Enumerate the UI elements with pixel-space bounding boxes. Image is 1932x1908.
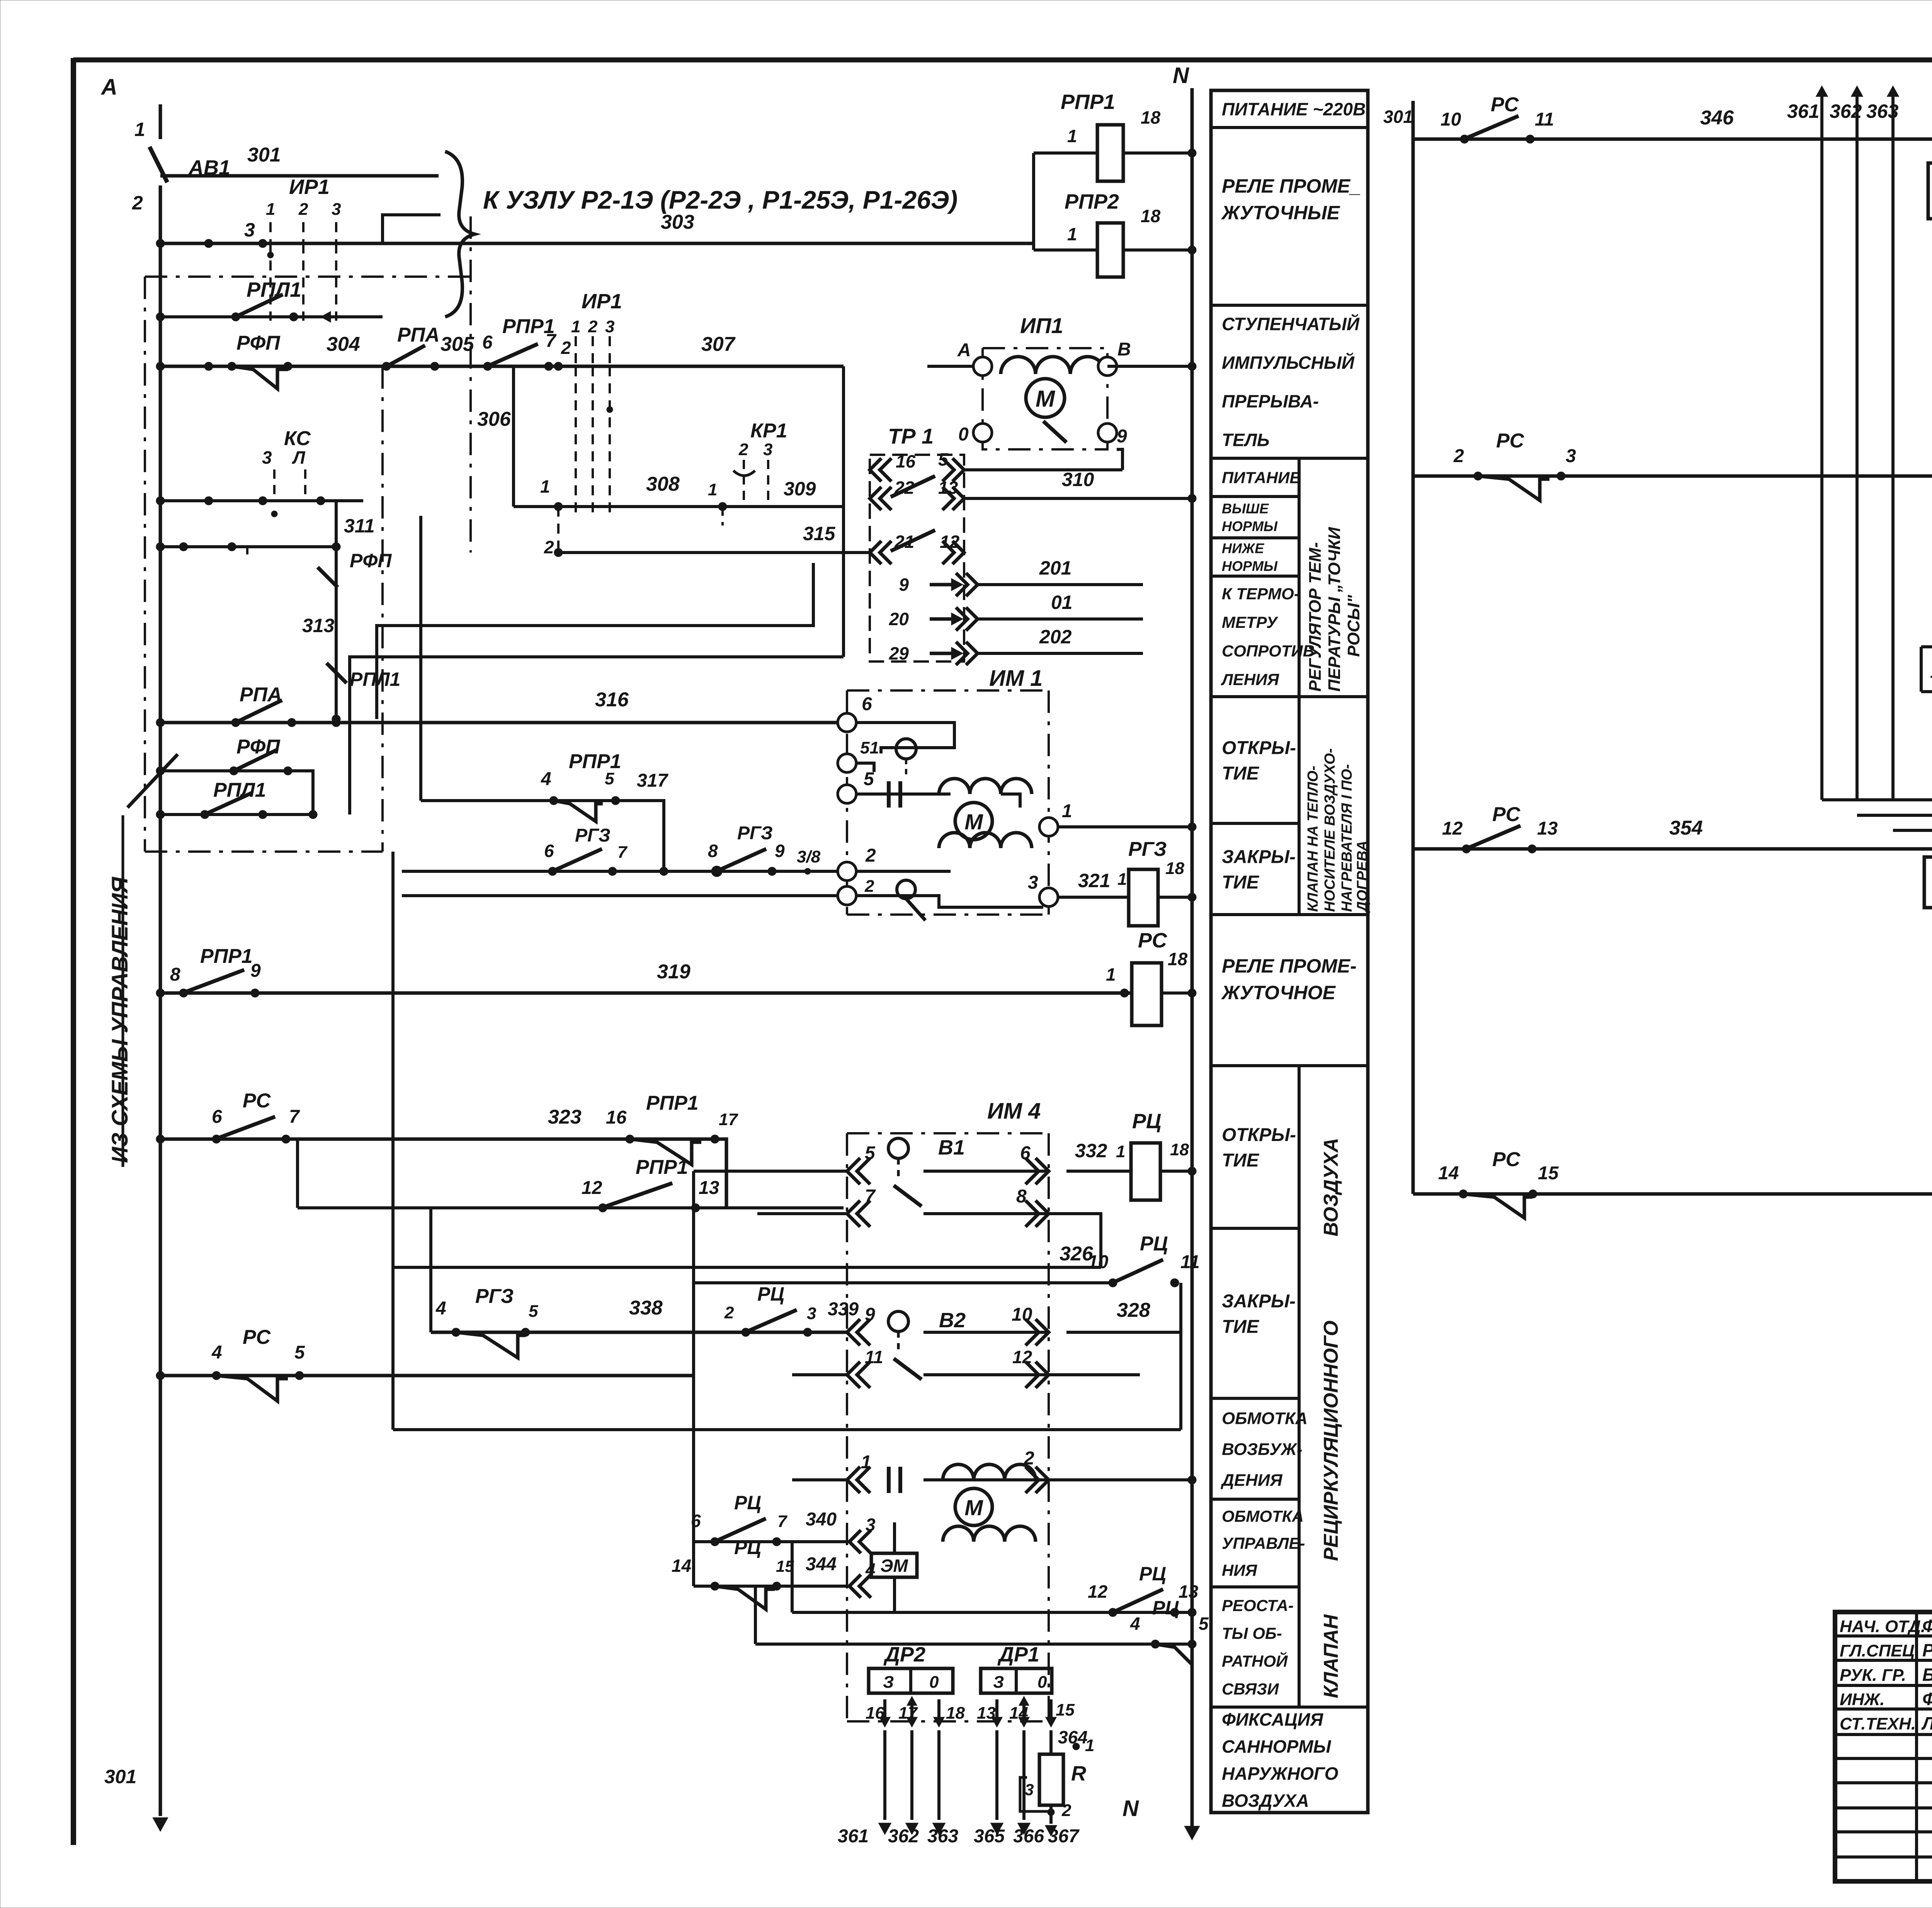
svg-text:7: 7 (289, 1107, 300, 1127)
svg-text:2: 2 (588, 317, 598, 336)
svg-text:Л: Л (292, 447, 306, 468)
svg-text:9: 9 (899, 575, 909, 595)
svg-text:6: 6 (862, 694, 872, 714)
svg-text:13: 13 (699, 1178, 719, 1198)
svg-text:10: 10 (1012, 1304, 1032, 1325)
svg-text:14: 14 (1930, 663, 1932, 682)
svg-text:2: 2 (544, 537, 554, 557)
svg-text:3: 3 (807, 1304, 816, 1323)
svg-text:315: 315 (803, 523, 836, 544)
svg-text:2: 2 (865, 845, 876, 866)
svg-text:2: 2 (298, 200, 308, 219)
svg-text:ДР2: ДР2 (883, 1643, 925, 1666)
svg-text:КС: КС (284, 427, 311, 450)
svg-text:3: 3 (244, 219, 255, 241)
svg-text:ОБМОТКА: ОБМОТКА (1222, 1507, 1304, 1525)
svg-text:4: 4 (1130, 1614, 1140, 1634)
svg-text:ТЕЛЬ: ТЕЛЬ (1222, 430, 1270, 450)
svg-text:2: 2 (1061, 1801, 1071, 1820)
svg-text:15: 15 (1538, 1163, 1559, 1184)
svg-text:ЛЕНИЯ: ЛЕНИЯ (1221, 670, 1279, 689)
svg-text:ДОГРЕВА: ДОГРЕВА (1354, 841, 1371, 913)
svg-text:ТР 1: ТР 1 (888, 424, 934, 448)
svg-text:12: 12 (1088, 1581, 1108, 1602)
svg-text:РПР1: РПР1 (1061, 90, 1115, 114)
svg-text:1: 1 (571, 317, 580, 336)
svg-text:ОТКРЫ-: ОТКРЫ- (1222, 1125, 1296, 1145)
svg-text:16: 16 (606, 1107, 627, 1128)
svg-text:БРОНШТЕЙН: БРОНШТЕЙН (1922, 1665, 1932, 1685)
svg-text:РЕГУЛЯТОР ТЕМ-: РЕГУЛЯТОР ТЕМ- (1306, 542, 1325, 692)
svg-text:22: 22 (894, 478, 915, 498)
svg-text:17: 17 (719, 1110, 738, 1129)
svg-text:13: 13 (938, 478, 958, 498)
svg-text:РПР1: РПР1 (200, 945, 253, 968)
svg-text:6: 6 (1020, 1143, 1031, 1163)
svg-text:5: 5 (529, 1302, 538, 1321)
svg-text:16: 16 (866, 1704, 884, 1723)
svg-text:340: 340 (806, 1509, 837, 1530)
svg-text:304: 304 (327, 333, 360, 355)
svg-text:361: 361 (1787, 100, 1819, 122)
svg-text:362: 362 (1830, 100, 1862, 122)
svg-text:РПР1: РПР1 (636, 1156, 688, 1178)
svg-text:ИМ 4: ИМ 4 (987, 1099, 1041, 1124)
svg-text:18: 18 (946, 1704, 965, 1723)
svg-text:РПА: РПА (240, 684, 282, 706)
svg-text:11: 11 (1535, 109, 1554, 130)
svg-text:НАЧ. ОТД.: НАЧ. ОТД. (1840, 1617, 1925, 1636)
svg-text:РПА: РПА (397, 324, 440, 346)
svg-text:РАТНОЙ: РАТНОЙ (1222, 1651, 1288, 1670)
svg-text:12: 12 (1012, 1347, 1032, 1367)
svg-text:ЛИСИКИНА: ЛИСИКИНА (1921, 1713, 1932, 1733)
svg-text:РС: РС (1138, 929, 1167, 952)
svg-text:311: 311 (344, 515, 375, 537)
svg-text:А: А (100, 75, 117, 100)
svg-text:17: 17 (898, 1704, 918, 1723)
svg-text:2: 2 (1453, 446, 1464, 466)
svg-text:НАРУЖНОГО: НАРУЖНОГО (1222, 1763, 1338, 1784)
svg-text:РЦ: РЦ (734, 1537, 761, 1558)
svg-text:7: 7 (777, 1512, 788, 1531)
svg-text:1: 1 (1117, 870, 1127, 889)
svg-text:РС: РС (243, 1090, 271, 1112)
svg-text:РПР1: РПР1 (646, 1092, 699, 1114)
svg-text:НОСИТЕЛЕ ВОЗДУХО-: НОСИТЕЛЕ ВОЗДУХО- (1322, 748, 1338, 912)
svg-text:12: 12 (1442, 818, 1463, 839)
svg-text:3/8: 3/8 (797, 847, 821, 866)
svg-text:308: 308 (646, 473, 680, 495)
svg-text:362: 362 (888, 1826, 919, 1847)
svg-text:18: 18 (1168, 949, 1188, 969)
svg-text:РС: РС (1496, 430, 1525, 452)
svg-text:3: 3 (332, 200, 341, 219)
svg-text:2: 2 (738, 440, 748, 459)
svg-text:РС: РС (243, 1326, 271, 1349)
svg-text:12: 12 (582, 1178, 602, 1198)
svg-text:1: 1 (1062, 801, 1072, 821)
svg-text:4: 4 (541, 769, 551, 789)
svg-text:РУБЧИНСКИЙ: РУБЧИНСКИЙ (1922, 1640, 1932, 1660)
svg-text:ЭМ: ЭМ (880, 1556, 908, 1576)
svg-text:2: 2 (724, 1303, 734, 1322)
svg-text:ЖУТОЧНОЕ: ЖУТОЧНОЕ (1221, 982, 1336, 1003)
svg-text:365: 365 (974, 1826, 1005, 1847)
svg-text:4: 4 (435, 1298, 446, 1319)
svg-text:305: 305 (440, 333, 474, 355)
svg-text:7: 7 (865, 1186, 876, 1207)
svg-text:306: 306 (477, 408, 511, 430)
svg-text:364: 364 (1058, 1727, 1088, 1747)
svg-text:М: М (964, 1496, 983, 1520)
svg-text:ИМ 1: ИМ 1 (989, 666, 1043, 691)
svg-text:7: 7 (546, 331, 557, 351)
svg-text:ОТКРЫ-: ОТКРЫ- (1222, 738, 1296, 758)
svg-text:5: 5 (1199, 1614, 1209, 1634)
svg-text:РС: РС (1492, 1148, 1521, 1171)
svg-text:РЕОСТА-: РЕОСТА- (1222, 1597, 1294, 1615)
svg-text:301: 301 (104, 1766, 136, 1787)
svg-text:20: 20 (889, 609, 909, 629)
svg-text:01: 01 (1051, 592, 1073, 613)
svg-text:ЖУТОЧНЫЕ: ЖУТОЧНЫЕ (1221, 202, 1340, 224)
svg-text:16: 16 (896, 451, 916, 471)
svg-text:РФП: РФП (350, 550, 392, 571)
svg-text:РГЗ: РГЗ (737, 823, 773, 843)
svg-text:РПЛ1: РПЛ1 (350, 668, 400, 690)
svg-text:РС: РС (1492, 803, 1521, 826)
svg-text:0: 0 (1037, 1673, 1047, 1692)
svg-text:14: 14 (672, 1556, 691, 1576)
svg-text:РПЛ1: РПЛ1 (213, 779, 266, 801)
svg-text:344: 344 (806, 1554, 837, 1575)
svg-text:13: 13 (1537, 818, 1558, 839)
svg-text:18: 18 (1165, 859, 1184, 878)
svg-text:363: 363 (1866, 100, 1899, 122)
svg-text:РОСЫ": РОСЫ" (1344, 595, 1363, 657)
svg-text:СТУПЕНЧАТЫЙ: СТУПЕНЧАТЫЙ (1222, 314, 1360, 334)
svg-text:14: 14 (1438, 1163, 1459, 1184)
svg-text:1: 1 (1116, 1142, 1125, 1161)
svg-text:ФИНГЕР: ФИНГЕР (1922, 1616, 1932, 1636)
svg-text:317: 317 (637, 770, 668, 791)
svg-text:N: N (1173, 63, 1189, 88)
svg-text:366: 366 (1013, 1826, 1044, 1847)
svg-text:29: 29 (889, 643, 909, 663)
svg-text:ИР1: ИР1 (289, 175, 330, 199)
svg-text:ТЫ ОБ-: ТЫ ОБ- (1222, 1624, 1282, 1643)
svg-text:6: 6 (482, 332, 493, 353)
svg-text:ГЛ.СПЕЦ: ГЛ.СПЕЦ (1840, 1641, 1915, 1660)
svg-text:В2: В2 (939, 1309, 966, 1332)
svg-text:5: 5 (294, 1342, 305, 1363)
svg-text:1: 1 (1106, 964, 1116, 985)
svg-text:РС: РС (1491, 94, 1519, 116)
svg-text:8: 8 (708, 841, 718, 861)
svg-text:РЦ: РЦ (757, 1283, 784, 1305)
svg-text:СТ.ТЕХН.: СТ.ТЕХН. (1840, 1714, 1916, 1733)
svg-text:ФИКСАЦИЯ: ФИКСАЦИЯ (1222, 1709, 1324, 1729)
svg-text:10: 10 (1440, 109, 1461, 130)
svg-text:РГЗ: РГЗ (575, 825, 611, 846)
svg-text:18: 18 (1141, 206, 1161, 226)
svg-text:1: 1 (540, 476, 550, 497)
svg-text:9: 9 (250, 961, 261, 981)
svg-text:РПР2: РПР2 (1065, 190, 1119, 213)
svg-text:310: 310 (1062, 469, 1094, 490)
svg-text:ПИТАНИЕ: ПИТАНИЕ (1222, 469, 1301, 487)
svg-text:11: 11 (1180, 1252, 1200, 1272)
svg-text:R: R (1071, 1762, 1086, 1785)
svg-text:ЗАКРЫ-: ЗАКРЫ- (1222, 1291, 1296, 1311)
svg-text:В1: В1 (938, 1136, 965, 1159)
svg-text:ОБМОТКА: ОБМОТКА (1222, 1409, 1308, 1428)
svg-text:3: 3 (866, 1515, 876, 1535)
svg-text:З: З (883, 1673, 894, 1692)
svg-text:А: А (957, 340, 971, 361)
svg-text:РУК. ГР.: РУК. ГР. (1840, 1666, 1906, 1685)
svg-text:ТИЕ: ТИЕ (1222, 1316, 1260, 1337)
svg-text:ВОЗБУЖ-: ВОЗБУЖ- (1222, 1440, 1302, 1459)
svg-text:316: 316 (595, 689, 629, 711)
svg-text:М: М (1036, 386, 1056, 412)
svg-text:5: 5 (865, 1143, 876, 1163)
svg-text:НИЯ: НИЯ (1222, 1561, 1258, 1580)
svg-text:0: 0 (958, 424, 969, 445)
svg-text:2: 2 (132, 192, 143, 214)
svg-text:363: 363 (927, 1826, 958, 1847)
svg-text:321: 321 (1078, 870, 1110, 891)
svg-text:ИП1: ИП1 (1020, 313, 1063, 338)
svg-text:КР1: КР1 (750, 420, 787, 442)
svg-text:323: 323 (548, 1106, 582, 1128)
svg-text:НИЖЕ: НИЖЕ (1222, 540, 1264, 556)
svg-text:ИЗ СХЕМЫ УПРАВЛЕНИЯ: ИЗ СХЕМЫ УПРАВЛЕНИЯ (107, 876, 133, 1163)
svg-text:В: В (1117, 339, 1131, 360)
svg-text:ИР1: ИР1 (582, 290, 622, 313)
svg-text:3: 3 (1566, 446, 1576, 466)
svg-text:328: 328 (1117, 1299, 1150, 1321)
svg-text:САННОРМЫ: САННОРМЫ (1222, 1736, 1332, 1757)
svg-text:201: 201 (1039, 557, 1071, 579)
svg-text:К ТЕРМО-: К ТЕРМО- (1222, 585, 1299, 603)
svg-text:51: 51 (860, 738, 879, 757)
svg-text:ВОЗДУХА: ВОЗДУХА (1222, 1791, 1309, 1811)
svg-text:N: N (1122, 1796, 1139, 1821)
svg-text:301: 301 (247, 144, 281, 166)
svg-text:ТИЕ: ТИЕ (1222, 872, 1260, 893)
svg-text:11: 11 (865, 1347, 883, 1367)
svg-text:РФП: РФП (236, 332, 281, 354)
svg-text:6: 6 (212, 1107, 222, 1127)
svg-text:НОРМЫ: НОРМЫ (1222, 558, 1278, 574)
svg-text:12: 12 (940, 532, 960, 552)
svg-text:2: 2 (561, 338, 571, 358)
svg-text:1: 1 (134, 119, 145, 140)
svg-text:5: 5 (938, 449, 949, 469)
svg-text:РЦ: РЦ (1140, 1233, 1168, 1255)
svg-text:РЕЛЕ ПРОМЕ_: РЕЛЕ ПРОМЕ_ (1222, 175, 1361, 197)
svg-text:2: 2 (864, 877, 874, 896)
svg-text:10: 10 (1088, 1252, 1109, 1272)
svg-text:5: 5 (605, 769, 614, 788)
svg-text:КЛАПАН НА ТЕПЛО-: КЛАПАН НА ТЕПЛО- (1305, 766, 1321, 912)
svg-text:СОПРОТИВ: СОПРОТИВ (1222, 642, 1315, 660)
svg-text:1: 1 (1067, 224, 1077, 244)
svg-text:ПРЕРЫВА-: ПРЕРЫВА- (1222, 391, 1319, 412)
svg-text:РЦ: РЦ (1139, 1563, 1166, 1585)
svg-text:319: 319 (657, 961, 690, 983)
svg-text:РЦ: РЦ (734, 1492, 761, 1513)
svg-text:332: 332 (1075, 1140, 1107, 1161)
svg-text:8: 8 (1016, 1186, 1027, 1207)
svg-text:ТИЕ: ТИЕ (1222, 763, 1260, 784)
svg-text:ДР1: ДР1 (997, 1643, 1039, 1666)
svg-text:361: 361 (838, 1826, 869, 1847)
svg-text:ФУКС: ФУКС (1922, 1689, 1932, 1709)
svg-text:1: 1 (1067, 126, 1077, 146)
svg-text:9: 9 (1117, 426, 1127, 447)
svg-text:РПЛ1: РПЛ1 (247, 278, 301, 301)
svg-text:313: 313 (302, 615, 335, 636)
svg-text:3: 3 (763, 440, 772, 459)
svg-text:354: 354 (1669, 817, 1703, 839)
svg-text:4: 4 (211, 1342, 222, 1363)
svg-text:8: 8 (170, 964, 180, 985)
svg-text:НОРМЫ: НОРМЫ (1222, 518, 1278, 534)
svg-text:МЕТРУ: МЕТРУ (1222, 613, 1279, 631)
svg-text:301: 301 (1383, 107, 1413, 127)
svg-text:РЕЛЕ ПРОМЕ-: РЕЛЕ ПРОМЕ- (1222, 955, 1357, 977)
svg-text:К УЗЛУ Р2-1Э (Р2-2Э , Р1-25Э,: К УЗЛУ Р2-1Э (Р2-2Э , Р1-25Э, Р1-26Э) (483, 185, 957, 214)
svg-text:З: З (993, 1673, 1004, 1692)
svg-text:РЦ: РЦ (1152, 1597, 1179, 1619)
svg-text:18: 18 (1170, 1140, 1189, 1159)
svg-text:ПЕРАТУРЫ „ТОЧКИ: ПЕРАТУРЫ „ТОЧКИ (1325, 527, 1344, 692)
svg-text:202: 202 (1039, 626, 1072, 648)
svg-text:1: 1 (1085, 1736, 1094, 1755)
svg-text:ДЕНИЯ: ДЕНИЯ (1220, 1471, 1283, 1490)
svg-text:18: 18 (1141, 107, 1161, 128)
svg-text:309: 309 (784, 478, 816, 500)
svg-text:346: 346 (1700, 107, 1734, 129)
svg-text:9: 9 (775, 841, 785, 861)
svg-text:ВОЗДУХА: ВОЗДУХА (1320, 1138, 1342, 1236)
svg-text:3: 3 (262, 447, 272, 468)
svg-text:ЗАКРЫ-: ЗАКРЫ- (1222, 847, 1296, 867)
svg-text:1: 1 (861, 1452, 871, 1473)
svg-text:3: 3 (1028, 872, 1038, 893)
svg-text:1: 1 (266, 200, 275, 219)
svg-text:РЦ: РЦ (1132, 1110, 1161, 1133)
svg-text:КЛАПАН: КЛАПАН (1320, 1614, 1342, 1698)
svg-text:ИМПУЛЬСНЫЙ: ИМПУЛЬСНЫЙ (1222, 353, 1355, 373)
svg-text:13: 13 (977, 1704, 996, 1723)
svg-text:303: 303 (661, 211, 694, 233)
svg-text:ИНЖ.: ИНЖ. (1840, 1690, 1884, 1709)
svg-text:НАГРЕВАТЕЛЯ I ПО-: НАГРЕВАТЕЛЯ I ПО- (1339, 764, 1355, 912)
svg-text:3: 3 (1025, 1780, 1034, 1799)
svg-text:РЕЦИРКУЛЯЦИОННОГО: РЕЦИРКУЛЯЦИОННОГО (1320, 1321, 1342, 1561)
svg-text:М: М (964, 810, 983, 835)
svg-text:3: 3 (605, 317, 614, 336)
svg-text:338: 338 (629, 1297, 663, 1319)
svg-text:СВЯЗИ: СВЯЗИ (1222, 1680, 1279, 1698)
svg-text:339: 339 (828, 1299, 859, 1320)
svg-text:0: 0 (929, 1673, 939, 1692)
svg-text:9: 9 (865, 1304, 875, 1325)
svg-text:ТИЕ: ТИЕ (1222, 1150, 1260, 1171)
svg-text:РГЗ: РГЗ (1128, 838, 1167, 860)
svg-text:15: 15 (1056, 1701, 1075, 1719)
svg-text:21: 21 (894, 532, 914, 552)
svg-text:307: 307 (701, 333, 736, 355)
svg-text:7: 7 (617, 843, 628, 862)
svg-text:1: 1 (708, 480, 717, 499)
svg-text:РГЗ: РГЗ (475, 1285, 514, 1308)
svg-text:14: 14 (1009, 1704, 1028, 1723)
svg-text:6: 6 (544, 841, 554, 861)
svg-text:ПИТАНИЕ ~220В: ПИТАНИЕ ~220В (1222, 99, 1366, 119)
svg-text:ВЫШЕ: ВЫШЕ (1222, 500, 1269, 516)
svg-text:13: 13 (1179, 1581, 1199, 1602)
svg-text:РФП: РФП (236, 736, 281, 758)
svg-text:УПРАВЛЕ-: УПРАВЛЕ- (1222, 1534, 1305, 1553)
